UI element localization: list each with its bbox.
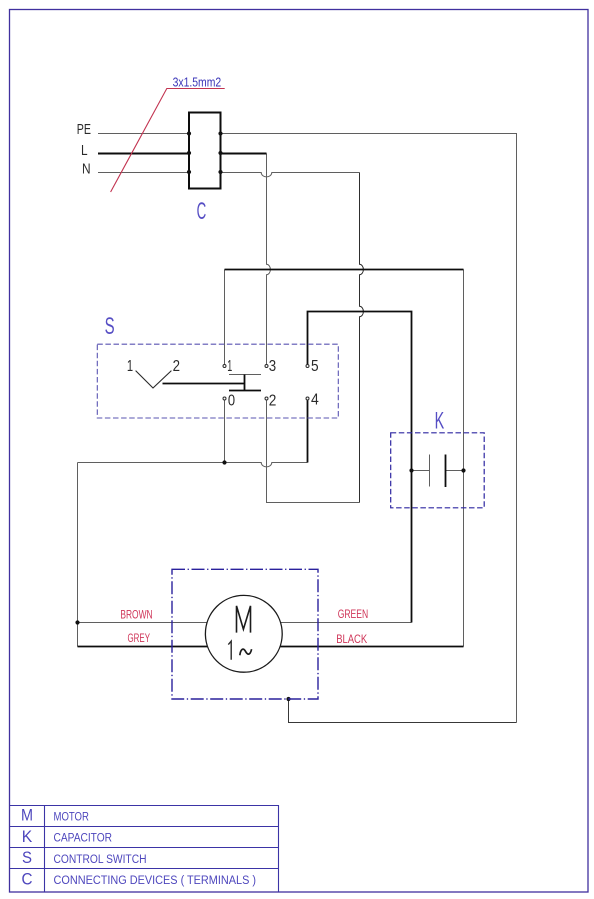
svg-text:3: 3 bbox=[269, 358, 276, 375]
svg-text:L: L bbox=[81, 143, 88, 159]
svg-text:K: K bbox=[22, 828, 33, 846]
svg-text:S: S bbox=[22, 849, 32, 867]
svg-text:CAPACITOR: CAPACITOR bbox=[54, 831, 113, 845]
svg-text:2: 2 bbox=[269, 392, 277, 409]
svg-text:GREEN: GREEN bbox=[338, 607, 369, 621]
svg-text:3x1.5mm2: 3x1.5mm2 bbox=[173, 74, 222, 89]
svg-text:S: S bbox=[105, 313, 115, 340]
svg-text:K: K bbox=[435, 407, 445, 434]
svg-text:1: 1 bbox=[127, 358, 133, 375]
svg-text:BLACK: BLACK bbox=[336, 632, 367, 646]
svg-text:N: N bbox=[82, 162, 91, 178]
svg-text:C: C bbox=[22, 871, 33, 889]
svg-text:M: M bbox=[21, 807, 33, 825]
svg-text:C: C bbox=[197, 198, 207, 225]
svg-text:CONNECTING DEVICES ( TERMINALS: CONNECTING DEVICES ( TERMINALS ) bbox=[54, 873, 257, 887]
svg-text:5: 5 bbox=[311, 358, 319, 375]
svg-text:4: 4 bbox=[311, 391, 319, 408]
svg-text:CONTROL SWITCH: CONTROL SWITCH bbox=[54, 852, 147, 866]
svg-text:1: 1 bbox=[227, 358, 232, 375]
svg-text:MOTOR: MOTOR bbox=[54, 810, 89, 824]
svg-text:BROWN: BROWN bbox=[120, 607, 152, 621]
svg-text:0: 0 bbox=[228, 392, 236, 409]
svg-text:2: 2 bbox=[173, 358, 180, 375]
svg-text:GREY: GREY bbox=[128, 631, 151, 645]
svg-text:PE: PE bbox=[77, 122, 91, 138]
